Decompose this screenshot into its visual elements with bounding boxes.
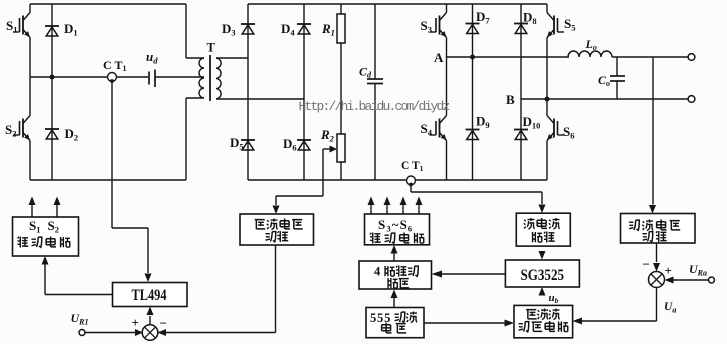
- svg-text:B: B: [506, 92, 515, 107]
- svg-text:−: −: [160, 316, 167, 331]
- svg-text:SG3525: SG3525: [521, 267, 565, 284]
- svg-text:T: T: [207, 41, 216, 55]
- svg-text:TL494: TL494: [132, 287, 167, 304]
- svg-text:4: 4: [374, 265, 381, 279]
- svg-text:+: +: [665, 263, 672, 278]
- svg-text:−: −: [643, 257, 650, 272]
- svg-text:+: +: [132, 315, 139, 330]
- svg-text:555: 555: [370, 311, 391, 325]
- svg-text:A: A: [434, 50, 444, 65]
- svg-text:Http://hi.baidu.com/diydz: Http://hi.baidu.com/diydz: [299, 99, 450, 114]
